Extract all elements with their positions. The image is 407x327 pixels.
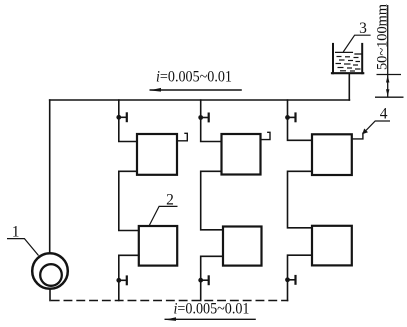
return main (dashed) [52, 300, 288, 302]
left supply drop pipe [49, 100, 51, 254]
dimension arrow down [386, 89, 389, 97]
tank water surface [336, 51, 353, 53]
valve V4 bottom col1 (dot) [116, 278, 121, 283]
valve V2 top (stem+tick) [201, 117, 209, 119]
pipe column1 between radiators [119, 171, 139, 230]
svg-text:1: 1 [12, 224, 20, 241]
radiator column2 top [222, 134, 261, 175]
valve V6 bottom col3 (dot) [285, 277, 290, 282]
return stub from boiler [49, 289, 51, 301]
flow arrow top [150, 88, 242, 92]
pipe column3 between radiators [288, 171, 313, 228]
dimension tick upper [377, 74, 402, 76]
top supply main [50, 99, 350, 101]
air-vent stub column2 [261, 132, 271, 139]
pipe column3 lower outlet [288, 255, 313, 300]
valve V2 top (dot) [198, 115, 203, 120]
dimension tick lower [375, 96, 404, 98]
svg-text:50~100mm: 50~100mm [375, 4, 391, 70]
leader for label 1 [7, 239, 39, 256]
valve V1 top (dot) [116, 115, 121, 120]
riser column 3 upper segment [288, 100, 313, 140]
svg-text:i=0.005~0.01: i=0.005~0.01 [156, 69, 232, 86]
valve V5 bottom col2 (stem+tick) [201, 279, 209, 281]
leader for label 4 [363, 121, 390, 133]
valve V3 top (stem+tick) [288, 116, 296, 118]
boiler B1 outer circle [32, 253, 68, 289]
expansion tank left wall [332, 44, 334, 73]
radiator column3 bottom [312, 226, 352, 266]
flow arrow bottom [165, 317, 256, 321]
pipe column2 lower outlet [201, 256, 223, 300]
radiator column1 bottom (item 2) [139, 226, 177, 266]
radiator column2 bottom [223, 227, 262, 266]
pipe column2 between radiators [201, 171, 223, 230]
dimension line 50~100mm [375, 5, 404, 97]
expansion tank bottom [332, 72, 363, 74]
expansion tank riser pipe [348, 74, 350, 100]
boiler B1 inner circle [40, 264, 62, 286]
expansion tank right wall [361, 44, 363, 73]
svg-text:i=0.005~0.01: i=0.005~0.01 [174, 301, 250, 318]
radiator column1 top [137, 134, 177, 175]
valve V1 top (stem+tick) [119, 116, 127, 118]
pipe column1 lower outlet [119, 255, 139, 300]
leader for label 2 [149, 206, 177, 225]
air-vent stub column1 [177, 133, 187, 141]
leader for label 3 [343, 35, 370, 52]
riser column 2 upper segment [201, 100, 222, 142]
riser column 1 upper segment [119, 100, 137, 142]
svg-text:4: 4 [380, 106, 388, 123]
leader 4 arrowhead [362, 129, 368, 135]
svg-text:3: 3 [359, 20, 367, 37]
tank water dashes [336, 57, 361, 72]
valve V4 bottom col1 (stem+tick) [119, 279, 127, 281]
air-vent stub column3 [352, 133, 363, 139]
valve V6 bottom col3 (stem+tick) [288, 279, 296, 281]
valve V3 top (dot) [285, 115, 290, 120]
dimension arrow up [386, 75, 389, 83]
radiator column3 top (item 4 vent) [312, 134, 352, 175]
valve V5 bottom col2 (dot) [198, 278, 203, 283]
